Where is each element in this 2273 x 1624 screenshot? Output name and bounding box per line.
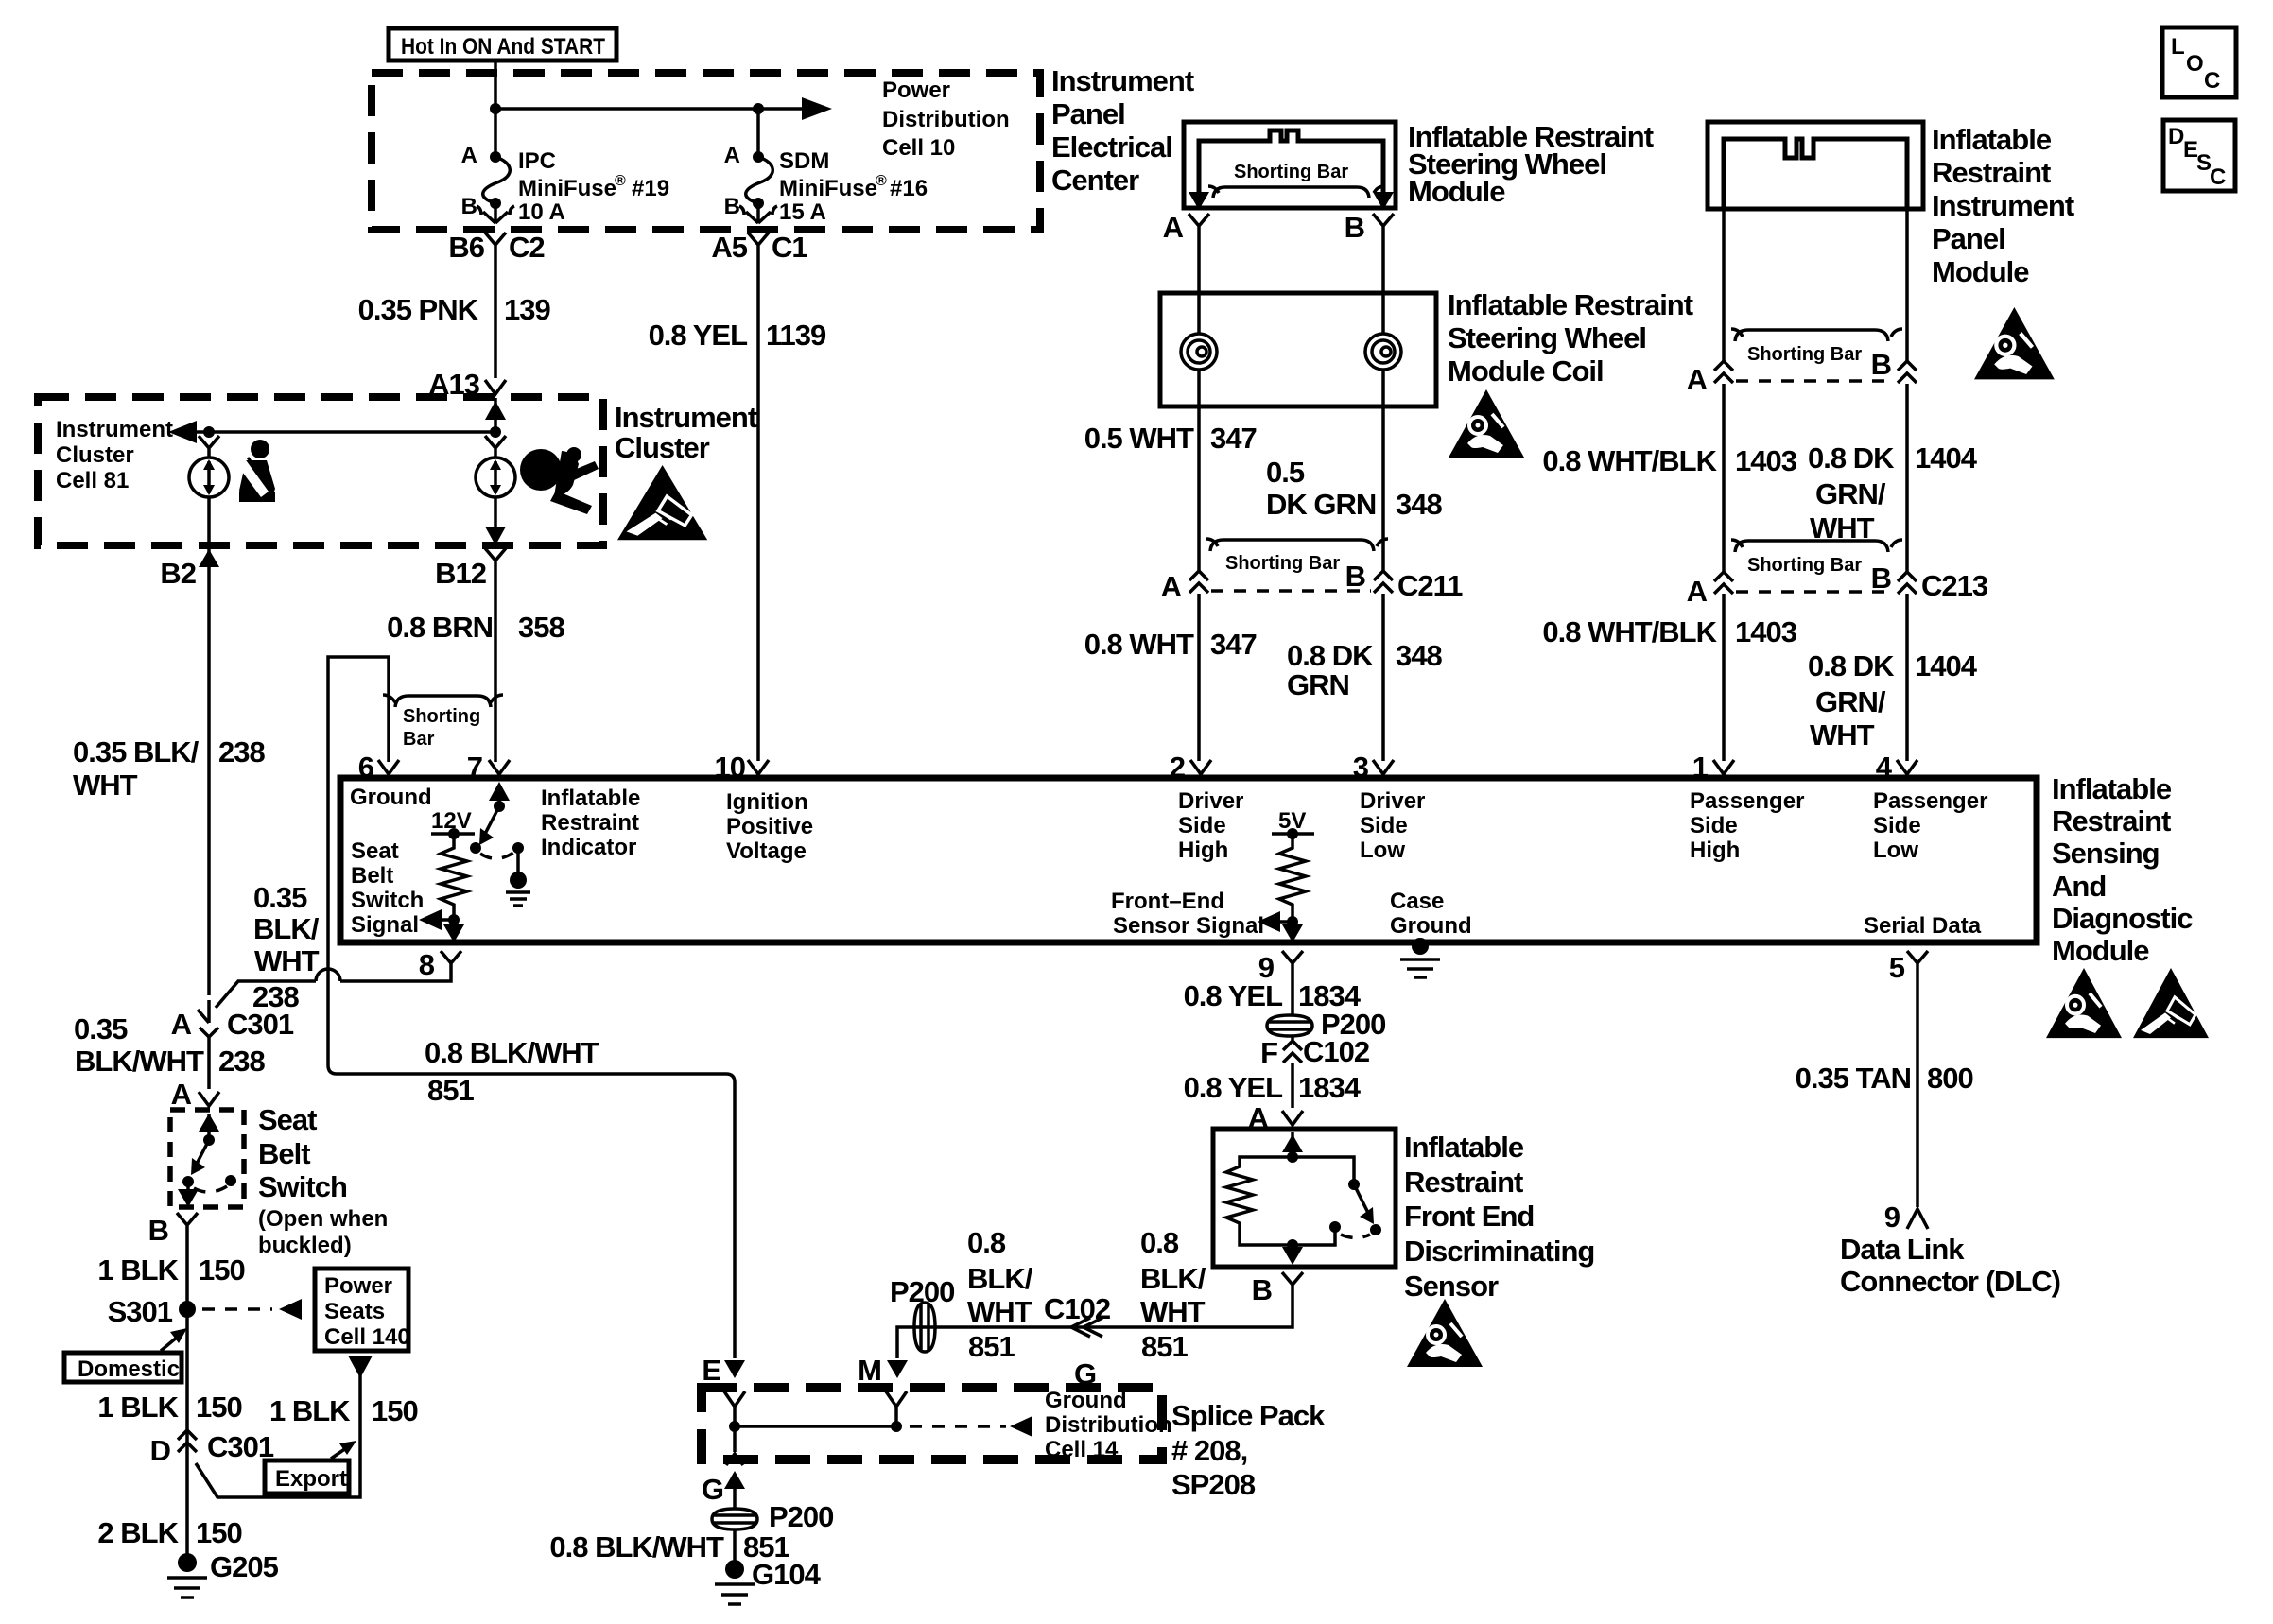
svg-text:O: O xyxy=(2186,51,2204,77)
svg-text:Front–End: Front–End xyxy=(1111,889,1224,914)
svg-text:0.8 BLK/WHT: 0.8 BLK/WHT xyxy=(549,1530,724,1564)
svg-text:Sensing: Sensing xyxy=(2052,837,2160,870)
fuse IPC MiniFuse #19 xyxy=(490,151,501,163)
sensor bottom junction and down arrow xyxy=(1287,1239,1298,1251)
shorting bar brace panel upper xyxy=(1731,329,1902,341)
svg-text:Module Coil: Module Coil xyxy=(1448,354,1604,388)
LOC box xyxy=(2162,27,2236,97)
shorting bar brace C211 xyxy=(1206,539,1388,551)
coil A spiral xyxy=(1181,334,1217,370)
svg-text:347: 347 xyxy=(1210,422,1257,455)
Hot In ON And START box xyxy=(389,28,616,60)
svg-text:Distribution: Distribution xyxy=(1045,1412,1172,1438)
switch pivot contact xyxy=(470,842,481,854)
svg-text:#16: #16 xyxy=(890,176,928,201)
dashed box Instrument Panel Electrical Center xyxy=(372,73,1040,230)
wire B sensor to M xyxy=(897,1295,1293,1358)
switch wire up arrow xyxy=(207,1114,211,1140)
switch wire down arrow xyxy=(186,1182,190,1197)
svg-text:GRN/: GRN/ xyxy=(1815,477,1886,510)
svg-text:0.8 WHT: 0.8 WHT xyxy=(1084,628,1194,661)
svg-text:BLK/: BLK/ xyxy=(253,912,320,945)
resistor seat belt switch signal xyxy=(441,834,467,920)
svg-text:5: 5 xyxy=(1889,951,1905,984)
svg-text:B: B xyxy=(1871,561,1891,595)
airbag icon xyxy=(520,447,599,514)
switch dashed arc xyxy=(194,1186,227,1192)
svg-text:F: F xyxy=(1260,1036,1277,1069)
svg-text:1404: 1404 xyxy=(1915,649,1978,682)
wire export branch xyxy=(196,1373,360,1497)
switch arm xyxy=(196,1140,209,1166)
svg-text:347: 347 xyxy=(1210,628,1257,661)
svg-text:B: B xyxy=(724,194,740,219)
arrow domestic to wire xyxy=(161,1337,178,1351)
svg-text:GRN/: GRN/ xyxy=(1815,685,1886,718)
svg-text:139: 139 xyxy=(504,293,550,326)
arrow export to wire xyxy=(331,1448,346,1459)
wire arrow to cluster cell xyxy=(195,430,495,434)
svg-text:Side: Side xyxy=(1178,813,1226,838)
svg-text:348: 348 xyxy=(1396,488,1442,521)
ESD triangle cluster xyxy=(617,465,707,540)
svg-text:C102: C102 xyxy=(1303,1035,1369,1068)
svg-text:A: A xyxy=(171,1008,192,1041)
svg-text:150: 150 xyxy=(199,1253,245,1287)
wire power distribution arrow xyxy=(495,107,806,111)
svg-text:B: B xyxy=(148,1214,168,1247)
svg-text:Cluster: Cluster xyxy=(615,431,710,464)
Export box xyxy=(265,1460,349,1494)
ESD triangle coil xyxy=(1449,389,1524,458)
svg-text:Inflatable: Inflatable xyxy=(541,786,640,811)
svg-text:Low: Low xyxy=(1873,838,1918,863)
svg-text:E: E xyxy=(702,1354,720,1387)
SDM module box xyxy=(340,778,2037,942)
svg-text:Ground: Ground xyxy=(1045,1388,1127,1413)
wire from Hot box down xyxy=(494,60,497,157)
svg-text:0.8 BLK/WHT: 0.8 BLK/WHT xyxy=(425,1036,599,1069)
dashed wire S301 to Power Seats xyxy=(202,1307,272,1311)
wire fuse SDM down arrow xyxy=(739,203,777,223)
grommet P200 on 851 wire xyxy=(914,1303,935,1352)
wire A panel module down xyxy=(1722,209,1726,362)
svg-text:WHT: WHT xyxy=(1810,718,1875,752)
svg-text:8: 8 xyxy=(419,948,435,981)
svg-text:L: L xyxy=(2171,34,2185,60)
svg-text:Shorting Bar: Shorting Bar xyxy=(1234,162,1348,182)
svg-text:Cell 10: Cell 10 xyxy=(882,135,955,161)
connector C301 A half arrow xyxy=(198,1000,209,1023)
svg-text:1 BLK: 1 BLK xyxy=(97,1391,179,1424)
svg-text:G205: G205 xyxy=(210,1550,279,1583)
svg-text:P200: P200 xyxy=(890,1275,954,1308)
svg-text:B12: B12 xyxy=(435,557,486,590)
sensor dashed arc xyxy=(1341,1235,1370,1238)
dashed wire to ground distribution xyxy=(910,1425,1006,1428)
svg-text:0.8 WHT/BLK: 0.8 WHT/BLK xyxy=(1542,444,1717,477)
svg-text:4: 4 xyxy=(1876,751,1893,784)
svg-text:0.35: 0.35 xyxy=(253,881,307,914)
sensor loop with resistor xyxy=(1226,1157,1335,1245)
svg-text:Ground: Ground xyxy=(1390,913,1472,939)
svg-text:Instrument: Instrument xyxy=(1932,189,2074,222)
svg-text:Cell 140: Cell 140 xyxy=(324,1324,410,1350)
svg-text:0.8 DK: 0.8 DK xyxy=(1808,649,1895,682)
svg-text:238: 238 xyxy=(218,735,265,769)
DESC box xyxy=(2163,120,2235,191)
wire ground 851 to splice pack E xyxy=(328,1065,735,1358)
svg-text:Inflatable Restraint: Inflatable Restraint xyxy=(1448,288,1693,321)
wire pin 9 down arrow xyxy=(1291,922,1294,934)
coil B spiral xyxy=(1365,334,1401,370)
svg-text:B: B xyxy=(1871,348,1891,381)
svg-text:1404: 1404 xyxy=(1915,441,1978,475)
sensor switch top contact xyxy=(1348,1179,1360,1190)
wire pin 9 0.8 YEL 1834 xyxy=(1291,974,1294,1015)
svg-text:Steering Wheel: Steering Wheel xyxy=(1448,321,1646,354)
svg-text:S301: S301 xyxy=(108,1295,173,1328)
wire 0.8 DK GRN/WHT 1404 xyxy=(1905,384,1909,574)
svg-text:WHT: WHT xyxy=(73,769,138,802)
svg-text:1403: 1403 xyxy=(1735,444,1797,477)
svg-text:GRN: GRN xyxy=(1287,668,1349,701)
svg-text:Sensor: Sensor xyxy=(1404,1270,1499,1303)
svg-text:Cluster: Cluster xyxy=(56,442,134,468)
Inflatable Restraint Steering Wheel Module box xyxy=(1184,122,1396,208)
wire pin 8 down arrow xyxy=(452,920,456,934)
indicator switch arm xyxy=(484,806,499,836)
svg-text:0.35: 0.35 xyxy=(74,1012,128,1045)
svg-text:A: A xyxy=(1161,570,1182,603)
svg-text:A: A xyxy=(724,143,740,168)
svg-text:B: B xyxy=(461,194,477,219)
dashed line C213 xyxy=(1736,590,1895,594)
dashed line C211 xyxy=(1211,589,1371,593)
svg-text:Bar: Bar xyxy=(403,729,435,750)
svg-text:15 A: 15 A xyxy=(779,199,826,225)
switch pivot xyxy=(182,1176,194,1187)
wire B to coil xyxy=(1381,236,1385,334)
svg-text:Inflatable: Inflatable xyxy=(1404,1131,1524,1164)
svg-text:C1: C1 xyxy=(772,231,807,264)
wire A to coil xyxy=(1197,236,1201,334)
wire 0.35 PNK 139 xyxy=(494,255,497,378)
node junction right xyxy=(490,426,501,438)
svg-text:0.8 DK: 0.8 DK xyxy=(1287,639,1374,672)
node junction left xyxy=(203,426,215,438)
svg-text:Center: Center xyxy=(1051,164,1139,197)
svg-text:Driver: Driver xyxy=(1360,788,1425,814)
svg-text:Indicator: Indicator xyxy=(541,835,636,860)
svg-text:Restraint: Restraint xyxy=(1404,1166,1523,1199)
svg-text:0.35 TAN: 0.35 TAN xyxy=(1796,1062,1911,1095)
svg-text:Belt: Belt xyxy=(258,1137,310,1170)
svg-text:Diagnostic: Diagnostic xyxy=(2052,902,2193,935)
svg-text:Module: Module xyxy=(1932,255,2029,288)
svg-text:Front End: Front End xyxy=(1404,1200,1534,1233)
dashed box Instrument Cluster xyxy=(38,397,603,545)
svg-text:0.8 DK: 0.8 DK xyxy=(1808,441,1895,475)
svg-text:Serial Data: Serial Data xyxy=(1864,913,1982,939)
svg-text:buckled): buckled) xyxy=(258,1233,352,1258)
wire fuse IPC down arrow xyxy=(477,203,514,223)
svg-text:358: 358 xyxy=(518,611,564,644)
svg-text:9: 9 xyxy=(1884,1201,1900,1234)
svg-text:A: A xyxy=(461,143,477,168)
svg-text:Shorting Bar: Shorting Bar xyxy=(1747,344,1862,365)
svg-text:Connector (DLC): Connector (DLC) xyxy=(1840,1265,2060,1298)
Inflatable Restraint Instrument Panel Module box xyxy=(1708,122,1923,209)
svg-text:1403: 1403 xyxy=(1735,615,1797,648)
svg-text:0.8 YEL: 0.8 YEL xyxy=(1184,1071,1283,1104)
svg-text:Hot In ON And START: Hot In ON And START xyxy=(401,34,605,60)
svg-text:10 A: 10 A xyxy=(518,199,565,225)
inner connector outline with key notch xyxy=(1724,139,1907,209)
svg-text:0.8 YEL: 0.8 YEL xyxy=(649,319,748,352)
svg-text:Instrument: Instrument xyxy=(56,417,173,442)
svg-text:A5: A5 xyxy=(711,231,747,264)
svg-text:0.8 WHT/BLK: 0.8 WHT/BLK xyxy=(1542,615,1717,648)
svg-text:Distribution: Distribution xyxy=(882,107,1010,132)
switch dashed arc xyxy=(480,853,513,858)
svg-text:Side: Side xyxy=(1360,813,1408,838)
svg-text:0.8 YEL: 0.8 YEL xyxy=(1184,979,1283,1012)
switch right contact to chassis ground xyxy=(512,842,524,854)
shorting bar brace inside xyxy=(1208,186,1384,198)
svg-text:M: M xyxy=(858,1354,881,1387)
wire 0.8 YEL 1139 xyxy=(756,255,760,761)
svg-text:Ignition: Ignition xyxy=(726,789,808,815)
wire 0.8 WHT 347 xyxy=(1197,594,1201,761)
connector G exit triangle xyxy=(726,1454,743,1465)
connector C102 G chevrons xyxy=(1071,1318,1102,1337)
svg-text:B2: B2 xyxy=(160,557,196,590)
svg-text:150: 150 xyxy=(372,1394,418,1427)
svg-text:®: ® xyxy=(876,173,887,189)
svg-text:WHT: WHT xyxy=(967,1295,1032,1328)
indicator driver wire with up arrow xyxy=(497,800,501,806)
fuse SDM MiniFuse #16 xyxy=(753,151,764,163)
svg-text:Signal: Signal xyxy=(351,912,419,938)
svg-text:High: High xyxy=(1690,838,1740,863)
grommet P200 G104 xyxy=(712,1509,757,1529)
Front End Discriminating Sensor box xyxy=(1213,1129,1396,1267)
svg-text:Positive: Positive xyxy=(726,814,813,839)
svg-text:Data Link: Data Link xyxy=(1840,1233,1965,1266)
svg-text:Seat: Seat xyxy=(351,838,399,864)
node bus junction xyxy=(490,103,501,114)
ESD triangle SDM hand xyxy=(2133,968,2209,1038)
connector M into splice pack xyxy=(886,1391,907,1426)
switch right contact xyxy=(225,1175,236,1186)
svg-text:Module: Module xyxy=(1408,175,1505,208)
wire 1 BLK 150 xyxy=(185,1235,189,1563)
svg-text:Splice Pack: Splice Pack xyxy=(1171,1399,1326,1432)
svg-text:1834: 1834 xyxy=(1298,1071,1362,1104)
svg-text:Module: Module xyxy=(2052,934,2149,967)
node SDM feed junction xyxy=(753,103,764,114)
splice bus xyxy=(729,1421,740,1432)
wire 0.5 DK GRN 348 xyxy=(1381,370,1385,571)
svg-text:Low: Low xyxy=(1360,838,1405,863)
svg-text:#19: #19 xyxy=(632,176,669,201)
svg-text:Switch: Switch xyxy=(351,888,424,913)
svg-text:SDM: SDM xyxy=(779,148,829,174)
Steering Wheel Module Coil box xyxy=(1160,293,1436,406)
sensor switch arm xyxy=(1354,1184,1369,1215)
svg-text:Electrical: Electrical xyxy=(1051,130,1172,164)
svg-text:MiniFuse: MiniFuse xyxy=(518,176,616,201)
svg-text:6: 6 xyxy=(358,751,374,784)
svg-text:Power: Power xyxy=(882,78,950,103)
svg-text:7: 7 xyxy=(467,751,482,784)
svg-text:150: 150 xyxy=(196,1516,242,1549)
svg-text:800: 800 xyxy=(1927,1062,1973,1095)
svg-text:2 BLK: 2 BLK xyxy=(97,1516,179,1549)
down arrows to pins A B xyxy=(1189,192,1209,210)
svg-text:150: 150 xyxy=(196,1391,242,1424)
wire 0.8 DK GRN 348 xyxy=(1381,594,1385,761)
svg-text:C: C xyxy=(2204,68,2220,94)
ESD triangle SDM airbag xyxy=(2046,968,2122,1038)
ground G104 xyxy=(725,1560,744,1579)
svg-text:1 BLK: 1 BLK xyxy=(269,1394,351,1427)
Power Seats Cell 140 box xyxy=(315,1269,408,1351)
svg-text:0.8: 0.8 xyxy=(967,1226,1006,1259)
svg-text:0.8: 0.8 xyxy=(1140,1226,1179,1259)
connector E into splice pack xyxy=(724,1391,745,1426)
svg-text:Domestic: Domestic xyxy=(78,1356,180,1382)
svg-text:10: 10 xyxy=(715,751,745,784)
svg-text:B: B xyxy=(1345,560,1365,593)
svg-text:0.35 PNK: 0.35 PNK xyxy=(358,293,479,326)
svg-text:851: 851 xyxy=(968,1330,1015,1363)
seat belt icon xyxy=(237,440,275,502)
svg-text:Export: Export xyxy=(275,1466,347,1492)
inner connector outline with key notch xyxy=(1199,130,1383,200)
wire front-end signal left arrow xyxy=(1278,920,1293,924)
grommet P200 pin9 xyxy=(1267,1015,1312,1036)
svg-text:Restraint: Restraint xyxy=(1932,156,2051,189)
svg-text:Power: Power xyxy=(324,1273,392,1299)
wire pin 8 to C301 with hop xyxy=(216,969,451,1008)
svg-text:0.35 BLK/: 0.35 BLK/ xyxy=(73,735,200,769)
wire 0.8 YEL 1834 lower xyxy=(1291,1063,1294,1108)
svg-text:D: D xyxy=(150,1434,171,1467)
svg-text:1 BLK: 1 BLK xyxy=(97,1253,179,1287)
ESD triangle sensor xyxy=(1407,1299,1483,1367)
svg-text:G: G xyxy=(702,1473,723,1506)
svg-text:A: A xyxy=(1687,363,1708,396)
svg-text:Switch: Switch xyxy=(258,1170,347,1203)
svg-text:C213: C213 xyxy=(1921,569,1988,602)
svg-text:Restraint: Restraint xyxy=(2052,804,2171,838)
wire 0.5 WHT 347 xyxy=(1197,370,1201,571)
svg-text:238: 238 xyxy=(218,1045,265,1078)
wire lamp to B2 xyxy=(207,497,211,571)
svg-text:1139: 1139 xyxy=(766,319,826,352)
svg-text:Inflatable: Inflatable xyxy=(1932,123,2052,156)
svg-text:G104: G104 xyxy=(752,1558,822,1591)
wire 0.8 WHT/BLK 1403 lower xyxy=(1722,594,1726,761)
wire ground loop to pin 6 xyxy=(328,657,389,1065)
wire A13 into cluster with up arrow xyxy=(494,398,497,432)
svg-text:C102: C102 xyxy=(1044,1292,1110,1325)
svg-text:And: And xyxy=(2052,870,2106,903)
svg-text:1: 1 xyxy=(1692,751,1709,784)
svg-text:Shorting Bar: Shorting Bar xyxy=(1225,553,1340,574)
wire 0.35 BLK/WHT 238 below C301 xyxy=(207,1037,211,1089)
svg-text:SP208: SP208 xyxy=(1171,1468,1256,1501)
ESD triangle panel module xyxy=(1974,307,2055,379)
splice S301 xyxy=(179,1301,196,1318)
svg-text:C301: C301 xyxy=(227,1008,294,1041)
svg-text:Restraint: Restraint xyxy=(541,810,639,836)
svg-text:DK GRN: DK GRN xyxy=(1266,488,1376,521)
airbag indicator lamp xyxy=(485,436,506,458)
svg-text:B6: B6 xyxy=(448,231,484,264)
wire 0.35 TAN 800 DLC xyxy=(1916,974,1919,1207)
svg-text:0.5: 0.5 xyxy=(1266,456,1305,489)
svg-text:Case: Case xyxy=(1390,889,1444,914)
svg-text:2: 2 xyxy=(1170,751,1185,784)
svg-text:IPC: IPC xyxy=(518,148,556,174)
Domestic box xyxy=(64,1353,182,1382)
svg-text:C211: C211 xyxy=(1397,569,1463,602)
wire 0.8 BLK/WHT 851 to G104 xyxy=(733,1529,737,1563)
svg-text:Shorting Bar: Shorting Bar xyxy=(1747,555,1862,576)
svg-text:Cell 14: Cell 14 xyxy=(1045,1437,1119,1462)
svg-text:A: A xyxy=(1163,211,1184,244)
svg-text:Voltage: Voltage xyxy=(726,838,807,864)
svg-text:Panel: Panel xyxy=(1051,97,1125,130)
svg-text:B: B xyxy=(1252,1273,1272,1306)
svg-text:Passenger: Passenger xyxy=(1690,788,1804,814)
wire lamp to B12 with down arrow xyxy=(494,497,497,545)
connector C102 F xyxy=(1291,1036,1294,1040)
svg-text:High: High xyxy=(1178,838,1228,863)
svg-text:3: 3 xyxy=(1353,751,1369,784)
svg-text:Passenger: Passenger xyxy=(1873,788,1987,814)
svg-text:Cell 81: Cell 81 xyxy=(56,468,129,493)
shorting bar brace C213 xyxy=(1731,540,1902,552)
svg-text:Seats: Seats xyxy=(324,1299,385,1324)
svg-text:BLK/: BLK/ xyxy=(967,1262,1033,1295)
svg-text:Sensor Signal: Sensor Signal xyxy=(1113,913,1264,939)
wire to SDM fuse xyxy=(756,109,760,157)
seat belt indicator lamp xyxy=(199,436,219,458)
svg-text:Shorting: Shorting xyxy=(403,706,480,727)
svg-text:WHT: WHT xyxy=(1140,1295,1206,1328)
ground G205 xyxy=(178,1553,197,1572)
wire 0.8 BRN 358 xyxy=(494,571,497,762)
svg-text:Driver: Driver xyxy=(1178,788,1243,814)
svg-text:Inflatable: Inflatable xyxy=(2052,772,2172,805)
svg-text:Panel: Panel xyxy=(1932,222,2005,255)
svg-text:C: C xyxy=(2210,164,2226,190)
svg-text:B: B xyxy=(1345,211,1364,244)
svg-text:0.8 BRN: 0.8 BRN xyxy=(387,611,493,644)
svg-text:C2: C2 xyxy=(509,231,545,264)
resistor front-end sensor xyxy=(1279,834,1306,922)
svg-text:BLK/: BLK/ xyxy=(1140,1262,1206,1295)
svg-text:A: A xyxy=(171,1078,192,1111)
wire 0.35 BLK/WHT 238 from B2 xyxy=(207,571,211,995)
svg-text:Instrument: Instrument xyxy=(615,401,757,434)
svg-text:851: 851 xyxy=(427,1074,474,1107)
wire 0.8 WHT/BLK 1403 xyxy=(1722,384,1726,574)
